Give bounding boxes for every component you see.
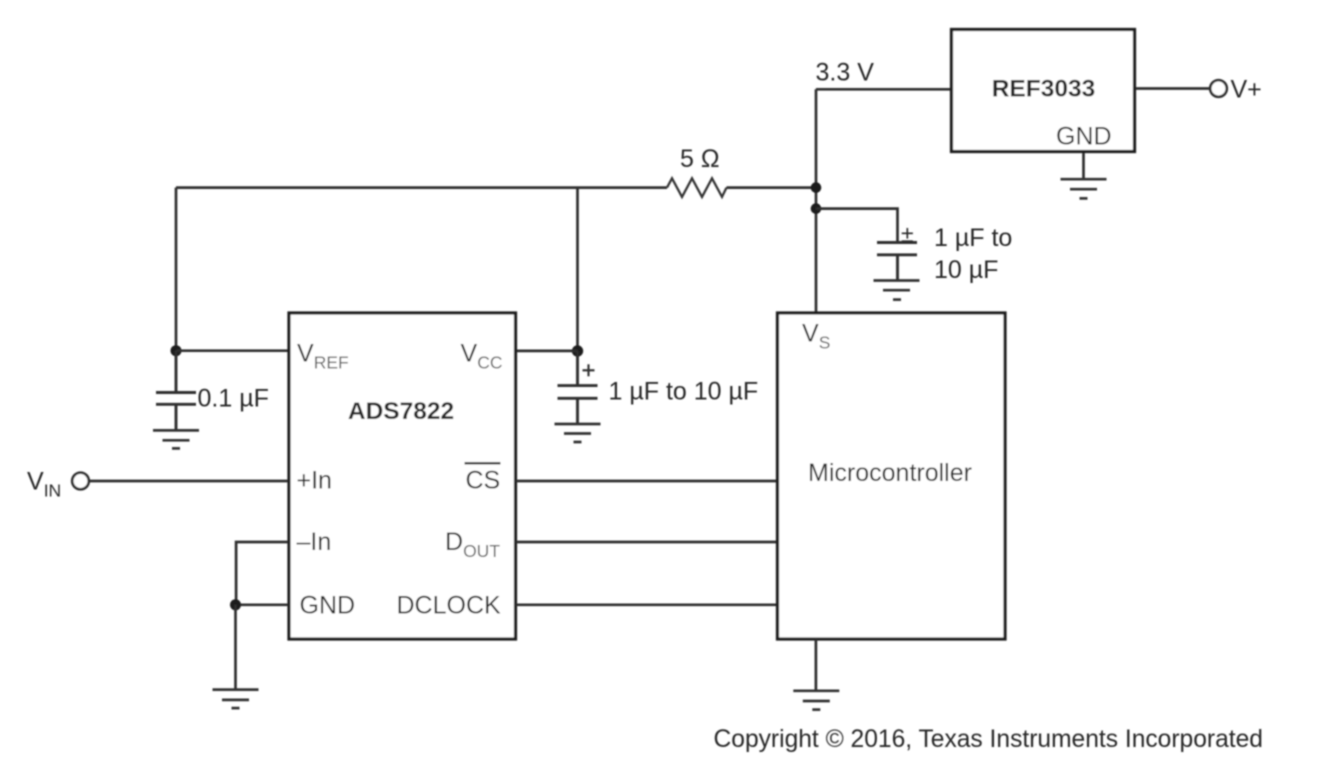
wire VREF node to ADS7822 VREF pin <box>176 349 288 352</box>
wire microcontroller ground stem <box>815 639 818 690</box>
svg-text:+In: +In <box>297 467 332 495</box>
wire top net horizontal left segment <box>176 186 667 189</box>
wire GND pin to node <box>236 603 289 606</box>
node GND junction dot <box>230 599 241 610</box>
svg-text:1 µF to 10 µF: 1 µF to 10 µF <box>609 378 759 406</box>
terminal VIN <box>72 473 89 490</box>
svg-text:REF3033: REF3033 <box>992 76 1096 103</box>
svg-text:±: ± <box>901 221 914 247</box>
node A junction dot <box>811 182 822 193</box>
wire VIN to +In pin <box>90 480 289 483</box>
resistor 5 ohm <box>667 178 727 197</box>
svg-text:–In: –In <box>297 528 332 556</box>
svg-text:GND: GND <box>1056 123 1112 151</box>
ground under C2 <box>555 424 601 442</box>
wire node B to bypass capacitor C3 <box>816 209 898 243</box>
svg-text:ADS7822: ADS7822 <box>348 398 454 425</box>
overline of CS <box>465 462 501 464</box>
wire REF3033 GND stem <box>1082 153 1085 179</box>
wire resistor to node A <box>727 186 817 189</box>
polarity mark plus C2 <box>583 364 595 376</box>
ground under microcontroller <box>793 691 839 710</box>
node VCC junction dot <box>572 345 583 356</box>
svg-text:DCLOCK: DCLOCK <box>397 592 502 620</box>
svg-text:0.1 µF: 0.1 µF <box>198 384 269 412</box>
ground under C3 <box>874 281 920 300</box>
wire CS to microcontroller <box>516 480 777 483</box>
wire node down to ground <box>234 605 237 689</box>
svg-text:CS: CS <box>466 467 501 495</box>
svg-text:Copyright © 2016, Texas Instru: Copyright © 2016, Texas Instruments Inco… <box>714 726 1263 753</box>
svg-text:10 µF: 10 µF <box>934 256 998 284</box>
capacitor C1 0.1uF <box>156 351 196 430</box>
wire vertical 3.3V rail down to microcontroller VS <box>815 89 818 311</box>
wire DOUT to microcontroller <box>516 541 777 544</box>
wire REF3033 output to V+ terminal <box>1136 87 1210 90</box>
wire DCLOCK to microcontroller <box>516 603 777 606</box>
wire 3.3V to REF3033 input <box>816 88 951 91</box>
capacitor C3 1uF to 10uF (polarized) <box>877 243 917 281</box>
wire ADS7822 VCC pin to node <box>516 350 578 353</box>
terminal V+ <box>1210 80 1227 97</box>
wire -In loop to GND node <box>236 542 288 605</box>
svg-text:3.3 V: 3.3 V <box>816 58 875 86</box>
svg-text:5 Ω: 5 Ω <box>680 145 720 173</box>
svg-text:1 µF to: 1 µF to <box>934 224 1012 252</box>
wire VCC rail vertical <box>576 188 579 351</box>
svg-text:GND: GND <box>300 592 356 620</box>
svg-text:Microcontroller: Microcontroller <box>808 459 972 487</box>
ground under ADS7822 GND <box>213 690 259 709</box>
REF3033 U1 box <box>952 30 1135 152</box>
ground under REF3033 <box>1061 179 1107 198</box>
node VREF junction dot <box>171 345 182 356</box>
ADS7822 U2 box <box>289 313 516 639</box>
wire VREF rail vertical <box>175 188 178 351</box>
capacitor C2 1uF to 10uF (polarized) <box>558 351 598 424</box>
node B junction dot <box>811 203 822 214</box>
svg-text:V+: V+ <box>1231 76 1262 104</box>
svg-text:VIN: VIN <box>27 467 61 500</box>
microcontroller U3 box <box>778 313 1006 639</box>
ground under C1 <box>153 430 199 448</box>
